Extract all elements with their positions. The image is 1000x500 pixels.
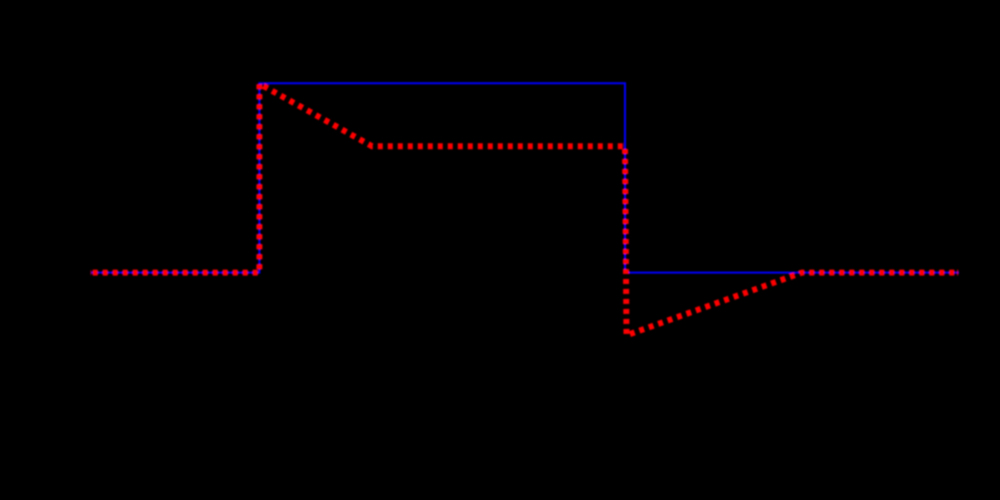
red trace end sliver dash [954, 270, 961, 276]
red dotted distorted trace [93, 84, 959, 335]
red trace start sliver dash [88, 270, 94, 275]
blue ideal square-wave trace [91, 83, 959, 272]
